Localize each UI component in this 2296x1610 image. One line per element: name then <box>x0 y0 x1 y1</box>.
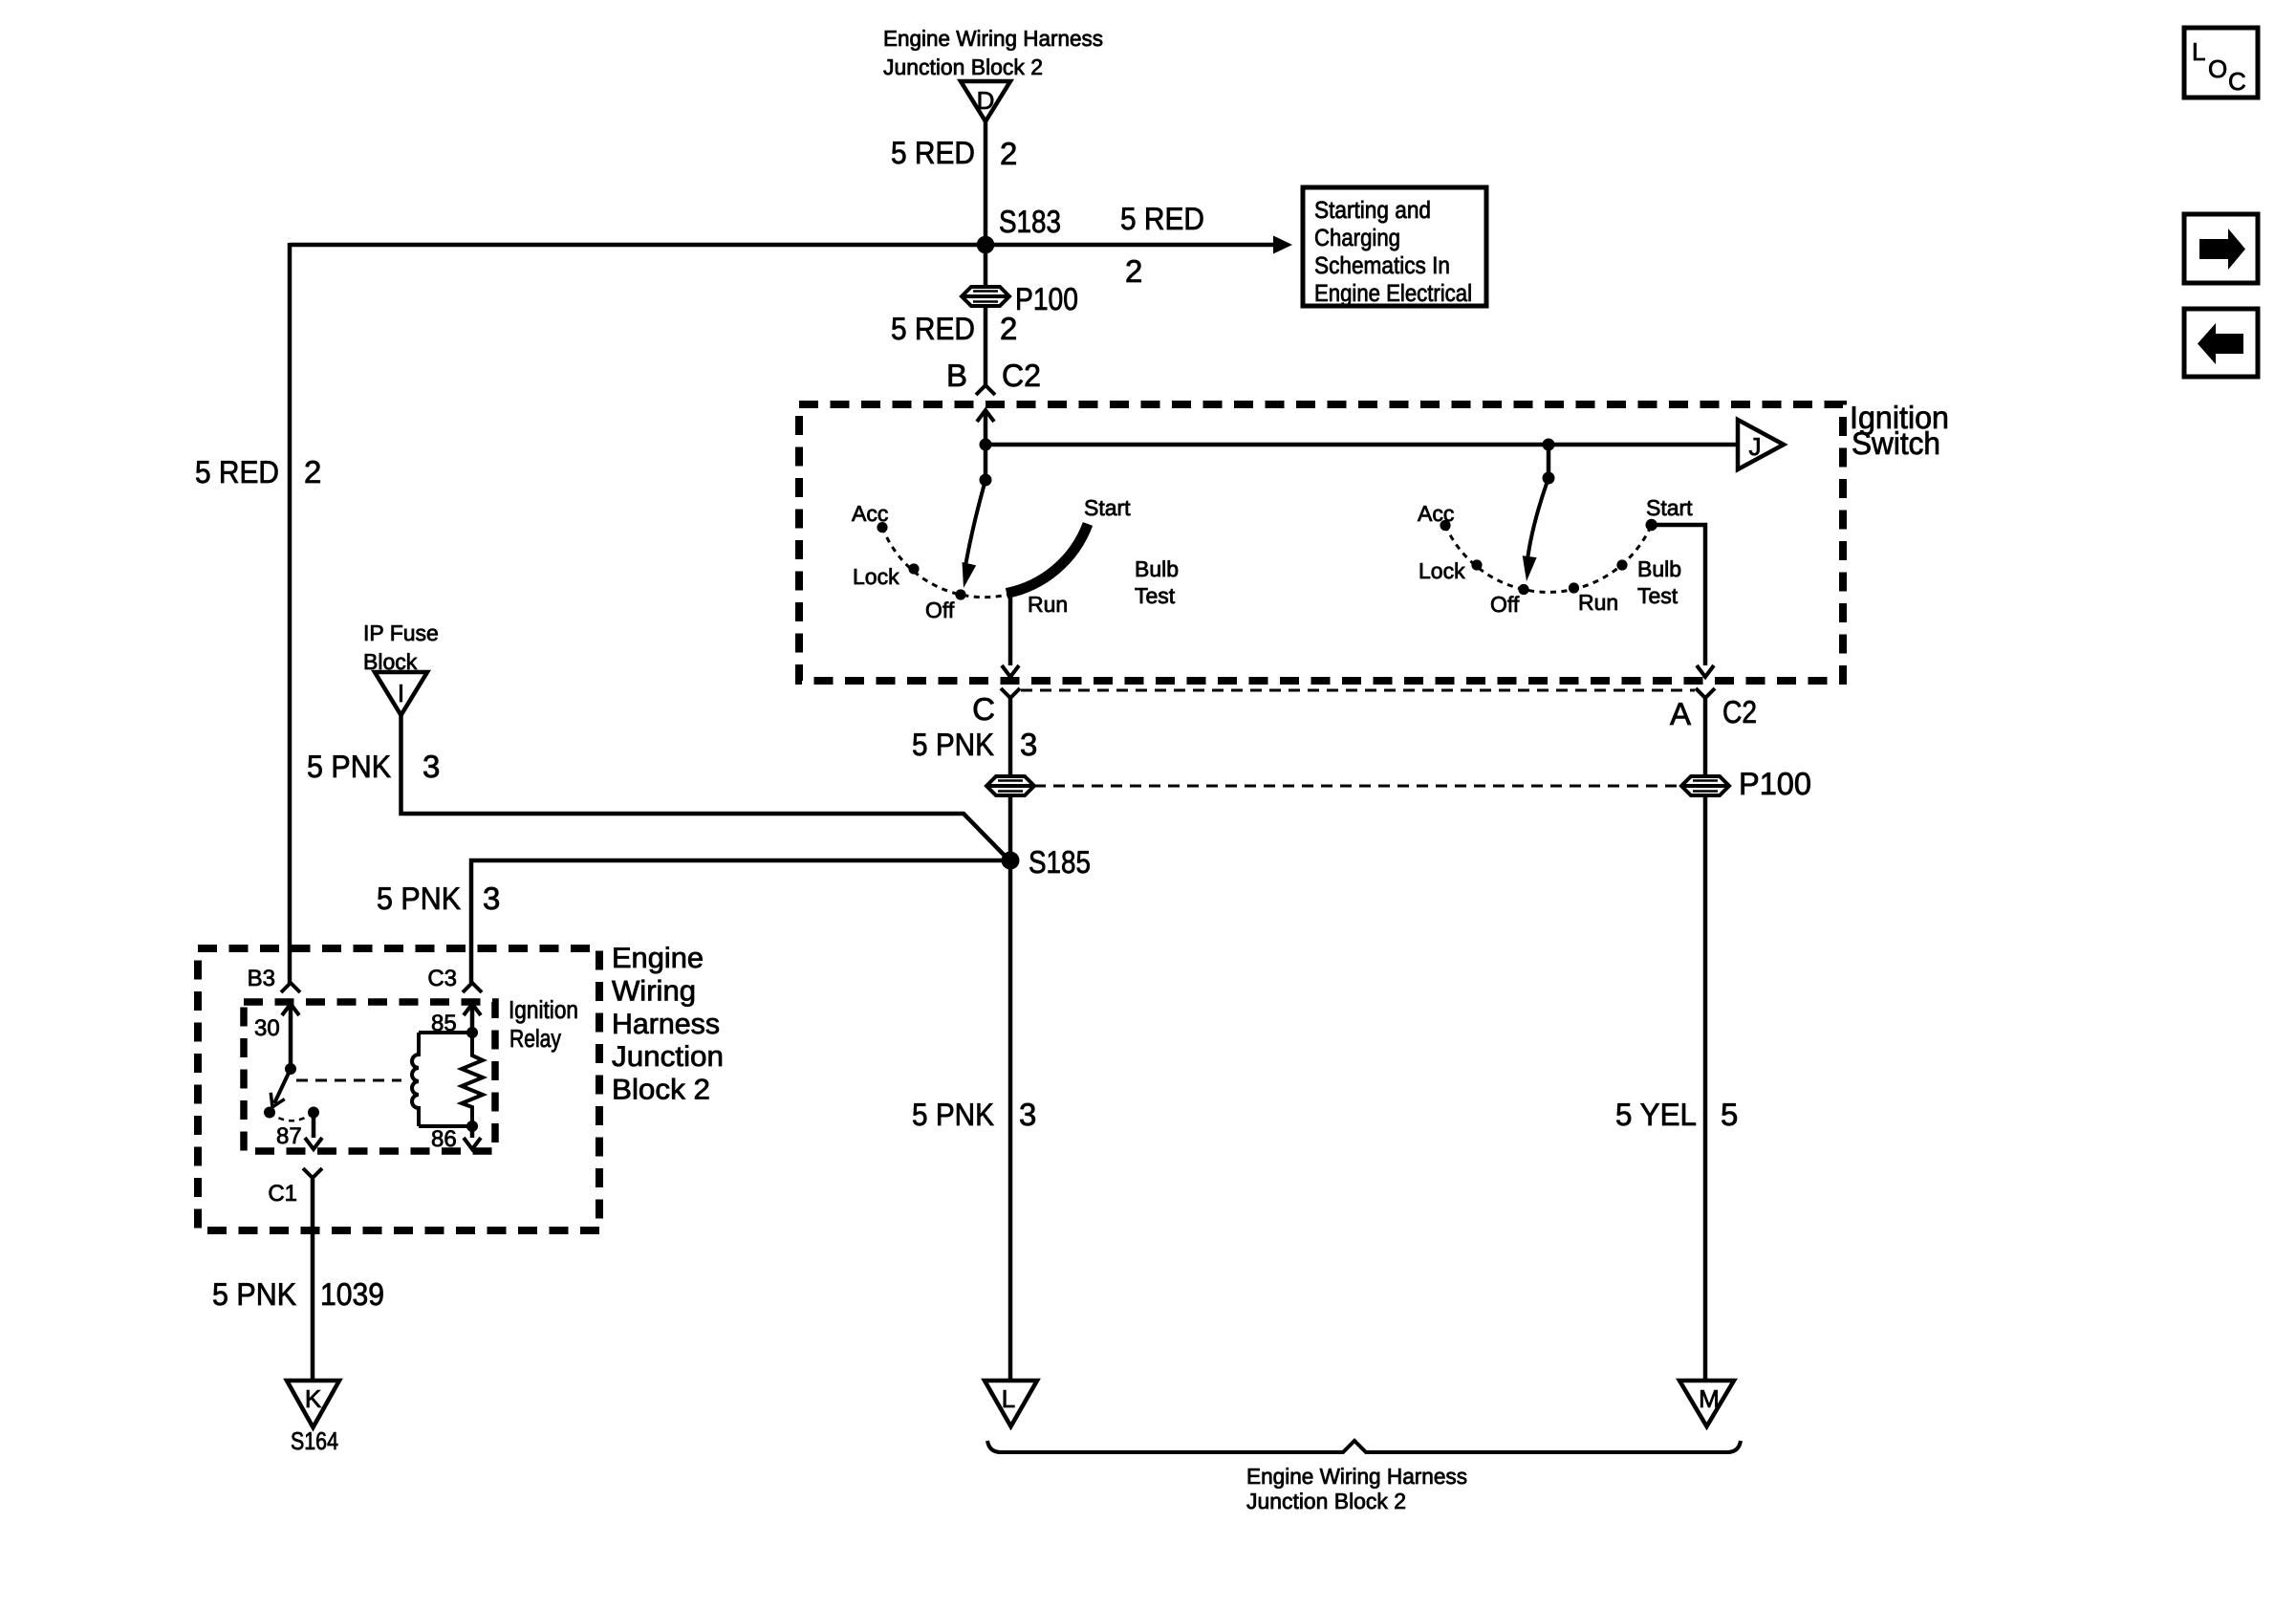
right switch labels <box>1418 495 1693 617</box>
node wiper pivot right <box>1543 472 1555 485</box>
connector P100 (left grommet) <box>986 776 1034 795</box>
svg-text:O: O <box>2208 54 2227 83</box>
svg-text:Run: Run <box>1578 590 1618 615</box>
svg-text:Junction: Junction <box>612 1041 724 1073</box>
wire S185 down to L <box>1008 860 1013 1381</box>
svg-text:C: C <box>2228 67 2246 96</box>
pin labels B C2 <box>946 358 1041 393</box>
svg-text:Acc: Acc <box>1418 501 1454 526</box>
svg-text:B: B <box>946 358 967 393</box>
right switch wiper arrow <box>1520 478 1549 582</box>
svg-text:5 RED: 5 RED <box>891 311 975 346</box>
svg-text:K: K <box>305 1384 322 1413</box>
left switch thick contact arc Run-Start <box>1007 524 1088 594</box>
connector P100 (right grommet) <box>1681 766 1811 801</box>
svg-text:Harness: Harness <box>612 1009 720 1040</box>
svg-text:86: 86 <box>431 1126 457 1152</box>
icon left arrow box <box>2184 309 2258 377</box>
wire B down to wiper pivot <box>984 410 988 480</box>
node blade contact <box>264 1107 275 1119</box>
svg-text:5 YEL: 5 YEL <box>1615 1097 1697 1132</box>
relay resistor <box>462 1033 483 1126</box>
wire P100 to connector C2 pin B <box>984 306 988 386</box>
svg-text:Test: Test <box>1637 583 1679 608</box>
svg-text:Block 2: Block 2 <box>612 1075 710 1106</box>
svg-text:P100: P100 <box>1739 766 1811 801</box>
right switch detent Start <box>1646 519 1657 531</box>
wire 87 down with arrow <box>305 1113 322 1150</box>
svg-text:5 PNK: 5 PNK <box>912 1097 994 1132</box>
svg-text:3: 3 <box>1019 1097 1036 1132</box>
coil bottom rail <box>419 1124 472 1128</box>
female terminal C3 <box>463 983 482 992</box>
connector M (triangle) <box>1679 1381 1734 1426</box>
connector C2 thin dashed line under switch box <box>1021 689 1695 692</box>
node blade pivot <box>285 1063 296 1075</box>
wire S183 to Starting and Charging box (arrow) <box>986 236 1292 254</box>
label Engine Wiring Harness Junction Block 2 (bottom) <box>1246 1464 1467 1513</box>
arrow into relay pin 30 <box>282 1004 299 1015</box>
left switch detent Lock <box>908 563 919 574</box>
svg-text:5 PNK: 5 PNK <box>912 727 994 762</box>
svg-text:Off: Off <box>925 598 955 622</box>
pin labels A C2 <box>1670 694 1757 731</box>
svg-text:5 RED: 5 RED <box>891 135 975 170</box>
label Engine Wiring Harness Junction Block 2 (top) <box>883 26 1103 79</box>
ignition switch dashed box <box>799 404 1843 681</box>
svg-text:Lock: Lock <box>853 564 899 589</box>
svg-text:3: 3 <box>1020 727 1037 762</box>
icon LOC box <box>2184 28 2258 98</box>
svg-text:2: 2 <box>1125 253 1142 289</box>
svg-text:5 PNK: 5 PNK <box>212 1276 296 1312</box>
wire A to P100 right <box>1703 698 1708 776</box>
right switch detent Run <box>1569 582 1579 593</box>
left switch detent Off <box>955 589 965 599</box>
svg-text:5 PNK: 5 PNK <box>377 881 461 916</box>
wire label 5 RED 2 (top) <box>891 135 1017 171</box>
svg-text:S185: S185 <box>1029 844 1091 880</box>
dashed arc blade to 87 <box>270 1113 314 1121</box>
coil top rail <box>419 1031 472 1034</box>
svg-text:Bulb: Bulb <box>1637 556 1681 581</box>
connector L (triangle) <box>985 1381 1037 1426</box>
connector P100 (top grommet) <box>962 281 1078 316</box>
label IP Fuse Block <box>363 620 439 674</box>
label Engine Wiring Harness Junction Block 2 (right of box) <box>612 943 724 1106</box>
wire I down and right to S185 <box>401 715 1008 859</box>
svg-text:Engine: Engine <box>612 943 704 974</box>
left switch wiper arrow <box>957 480 986 590</box>
svg-text:30: 30 <box>254 1015 280 1041</box>
svg-text:J: J <box>1749 432 1762 461</box>
svg-text:2: 2 <box>1000 311 1017 346</box>
svg-text:2: 2 <box>1000 136 1017 171</box>
svg-text:3: 3 <box>483 881 500 916</box>
svg-text:A: A <box>1670 696 1691 731</box>
node feed right <box>1543 439 1555 451</box>
wire S185 left branch to C3 <box>471 860 1010 983</box>
svg-text:Run: Run <box>1028 592 1068 617</box>
left switch output wire (Run) <box>1002 593 1019 677</box>
svg-text:5 RED: 5 RED <box>195 454 279 490</box>
svg-text:Bulb: Bulb <box>1135 556 1179 581</box>
female terminal B3 <box>281 983 300 992</box>
svg-text:Schematics In: Schematics In <box>1314 252 1450 279</box>
wire C to P100 <box>1008 698 1013 776</box>
node coil top <box>466 1027 478 1038</box>
svg-text:5: 5 <box>1721 1097 1738 1132</box>
svg-text:1039: 1039 <box>320 1276 384 1312</box>
right switch output wire (Start) <box>1652 525 1714 677</box>
svg-text:Junction Block 2: Junction Block 2 <box>883 54 1043 79</box>
thin dashed line between P100 grommets <box>1034 785 1681 788</box>
wire right pivot stub <box>1547 445 1551 478</box>
svg-text:P100: P100 <box>1015 281 1078 316</box>
svg-text:Lock: Lock <box>1419 558 1465 583</box>
wire D to S183 <box>984 121 988 245</box>
svg-text:Switch: Switch <box>1852 425 1940 461</box>
wire label 5 RED 2 (to box) <box>1120 201 1204 289</box>
svg-text:Engine Wiring Harness: Engine Wiring Harness <box>1246 1464 1467 1489</box>
svg-text:Start: Start <box>1084 495 1131 520</box>
female terminal at B/C2 <box>976 385 995 395</box>
svg-text:C2: C2 <box>1722 694 1757 729</box>
arrow into switch at B <box>977 410 994 422</box>
wire label 5 PNK 3 (to L) <box>912 1097 1036 1132</box>
svg-text:Start: Start <box>1646 495 1693 520</box>
svg-text:3: 3 <box>422 749 440 784</box>
svg-text:Engine Wiring Harness: Engine Wiring Harness <box>883 26 1103 51</box>
wire label 5 PNK 3 (to C3) <box>377 881 500 916</box>
svg-text:M: M <box>1699 1384 1720 1413</box>
wire label 5 RED 2 (left side) <box>195 454 321 490</box>
svg-text:L: L <box>1002 1384 1015 1413</box>
node coil bottom <box>466 1120 478 1132</box>
svg-text:87: 87 <box>276 1123 302 1149</box>
svg-text:Engine Electrical: Engine Electrical <box>1314 280 1472 307</box>
box Starting and Charging Schematics In Engine Electrical <box>1303 187 1486 307</box>
ignition relay inner dashed box <box>244 1002 495 1151</box>
female terminal A <box>1696 688 1715 698</box>
left switch detent arc <box>882 524 1088 598</box>
female terminal C1 <box>303 1168 322 1178</box>
wire label 5 PNK 1039 <box>212 1276 384 1312</box>
right switch detent Lock <box>1471 559 1482 570</box>
wire C1 down to K <box>311 1178 315 1381</box>
svg-text:Relay: Relay <box>509 1024 561 1053</box>
left switch labels <box>852 495 1179 622</box>
svg-text:Starting and: Starting and <box>1314 197 1431 224</box>
svg-text:S183: S183 <box>999 204 1061 239</box>
wire left horizontal from S183 <box>290 243 986 248</box>
splice S183 <box>977 204 1061 253</box>
right switch detent Off <box>1518 584 1528 595</box>
node contact 87 <box>308 1107 319 1119</box>
node feed left <box>980 439 992 451</box>
svg-text:B3: B3 <box>248 966 275 991</box>
svg-text:Test: Test <box>1135 583 1176 608</box>
feed wire across switch to J <box>986 443 1738 447</box>
svg-text:IP Fuse: IP Fuse <box>363 620 439 645</box>
wire label 5 PNK 3 (IP fuse wire) <box>307 749 440 784</box>
svg-text:Off: Off <box>1490 592 1520 617</box>
label Ignition Relay <box>509 995 578 1053</box>
relay coil <box>412 1033 419 1126</box>
wire left vertical down to B3 <box>288 243 292 983</box>
connector I (triangle IP fuse block) <box>375 672 427 715</box>
svg-text:L: L <box>2192 37 2205 66</box>
label Ignition Switch <box>1850 400 1949 461</box>
brace Engine Wiring Harness Junction Block 2 <box>987 1441 1741 1452</box>
wire P100 down to splice S185 <box>1008 795 1013 860</box>
node wiper pivot left <box>980 474 992 487</box>
svg-text:5 PNK: 5 PNK <box>307 749 391 784</box>
svg-text:D: D <box>977 86 995 115</box>
svg-text:Ignition: Ignition <box>509 995 578 1024</box>
wire right P100 down to M <box>1703 795 1708 1381</box>
wire label 5 YEL 5 (to M) <box>1615 1097 1738 1132</box>
splice S185 <box>1002 844 1092 880</box>
wire 85 to coil top rail <box>470 1004 475 1033</box>
svg-text:Junction Block 2: Junction Block 2 <box>1246 1489 1406 1513</box>
right switch detent arc <box>1445 525 1652 592</box>
arrow into relay pin 85 <box>464 1004 481 1015</box>
wire label 5 PNK 3 (above P100) <box>912 727 1037 762</box>
right switch detent Acc <box>1440 520 1450 531</box>
svg-text:Wiring: Wiring <box>612 976 696 1008</box>
icon right arrow box <box>2184 214 2258 283</box>
wire label 5 RED 2 (below P100) <box>891 311 1017 346</box>
wire 30 to blade pivot <box>289 1004 293 1069</box>
svg-text:I: I <box>398 679 404 707</box>
female terminal C <box>1001 688 1020 698</box>
left switch detent Acc <box>877 522 887 533</box>
svg-text:5 RED: 5 RED <box>1120 201 1204 236</box>
connector K (triangle) <box>287 1381 339 1427</box>
svg-text:C: C <box>972 691 995 727</box>
wire 86 down with arrow <box>464 1126 481 1149</box>
svg-text:C3: C3 <box>427 966 457 991</box>
relay switch blade arrow <box>266 1069 291 1110</box>
right switch detent Bulb Test <box>1616 559 1627 570</box>
wire S183 to P100 <box>984 245 988 289</box>
svg-text:S164: S164 <box>291 1426 338 1455</box>
connector J (triangle) <box>1738 420 1784 469</box>
svg-text:2: 2 <box>304 454 321 490</box>
svg-text:Acc: Acc <box>852 501 888 526</box>
svg-text:C2: C2 <box>1002 358 1041 393</box>
dashed actuation link <box>296 1079 401 1082</box>
svg-text:Charging: Charging <box>1314 225 1400 251</box>
Engine Wiring Harness Junction Block 2 outer dashed box <box>198 948 599 1230</box>
connector D (triangle) <box>961 81 1010 121</box>
svg-text:C1: C1 <box>268 1181 297 1207</box>
